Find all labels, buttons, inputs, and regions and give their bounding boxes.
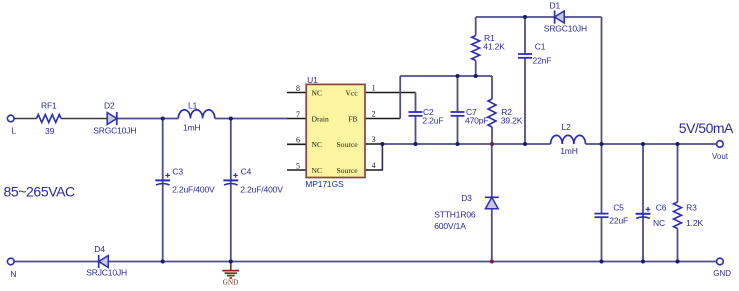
svg-text:Vcc: Vcc (345, 88, 358, 97)
svg-text:3: 3 (372, 135, 376, 144)
svg-text:2.2uF/400V: 2.2uF/400V (172, 185, 215, 195)
svg-text:Source: Source (337, 166, 359, 175)
svg-text:NC: NC (312, 140, 323, 149)
svg-text:8: 8 (296, 84, 300, 93)
svg-text:GND: GND (713, 269, 731, 278)
svg-text:1.2K: 1.2K (686, 218, 703, 228)
svg-text:MP171GS: MP171GS (305, 179, 344, 189)
svg-text:C1: C1 (535, 42, 546, 52)
svg-text:2: 2 (372, 110, 376, 119)
svg-text:Source: Source (337, 140, 359, 149)
svg-text:7: 7 (296, 110, 300, 119)
svg-text:39.2K: 39.2K (501, 115, 523, 125)
svg-text:NC: NC (653, 218, 665, 228)
svg-text:22nF: 22nF (533, 55, 552, 65)
svg-text:SRGC10JH: SRGC10JH (544, 23, 587, 33)
svg-text:D4: D4 (94, 244, 105, 254)
svg-text:U1: U1 (307, 75, 318, 85)
svg-text:C5: C5 (613, 202, 624, 212)
svg-text:2.2uF/400V: 2.2uF/400V (240, 185, 283, 195)
svg-text:5: 5 (296, 161, 300, 170)
svg-text:STTH1R06: STTH1R06 (434, 209, 476, 219)
svg-text:1: 1 (372, 84, 376, 93)
svg-text:6: 6 (296, 136, 300, 145)
svg-text:GND: GND (223, 278, 239, 287)
svg-text:Vout: Vout (712, 152, 729, 161)
svg-text:N: N (10, 269, 16, 279)
svg-text:L2: L2 (562, 122, 572, 132)
svg-text:L: L (11, 125, 16, 135)
svg-text:600V/1A: 600V/1A (434, 221, 466, 231)
svg-text:41.2K: 41.2K (483, 42, 505, 52)
svg-text:Drain: Drain (312, 114, 329, 123)
svg-text:NC: NC (312, 166, 323, 175)
svg-text:1mH: 1mH (183, 122, 201, 132)
svg-text:85~265VAC: 85~265VAC (4, 184, 76, 200)
svg-text:NC: NC (312, 89, 323, 98)
svg-text:D3: D3 (461, 193, 472, 203)
svg-text:R3: R3 (686, 202, 697, 212)
svg-text:1mH: 1mH (560, 146, 578, 156)
svg-text:470pF: 470pF (465, 115, 488, 125)
svg-text:FB: FB (348, 114, 357, 123)
svg-text:L1: L1 (188, 101, 198, 111)
svg-text:22uF: 22uF (609, 216, 628, 226)
svg-text:D1: D1 (550, 0, 561, 10)
svg-text:C3: C3 (172, 167, 183, 177)
svg-text:2.2uF: 2.2uF (422, 115, 443, 125)
svg-text:39: 39 (45, 126, 55, 136)
svg-text:RF1: RF1 (41, 101, 57, 111)
svg-text:D2: D2 (104, 101, 115, 111)
svg-text:4: 4 (372, 161, 376, 170)
svg-text:C4: C4 (241, 167, 252, 177)
svg-text:SRJC10JH: SRJC10JH (86, 268, 127, 278)
svg-text:5V/50mA: 5V/50mA (679, 120, 734, 136)
svg-text:SRGC10JH: SRGC10JH (93, 126, 136, 136)
svg-text:C6: C6 (656, 202, 667, 212)
